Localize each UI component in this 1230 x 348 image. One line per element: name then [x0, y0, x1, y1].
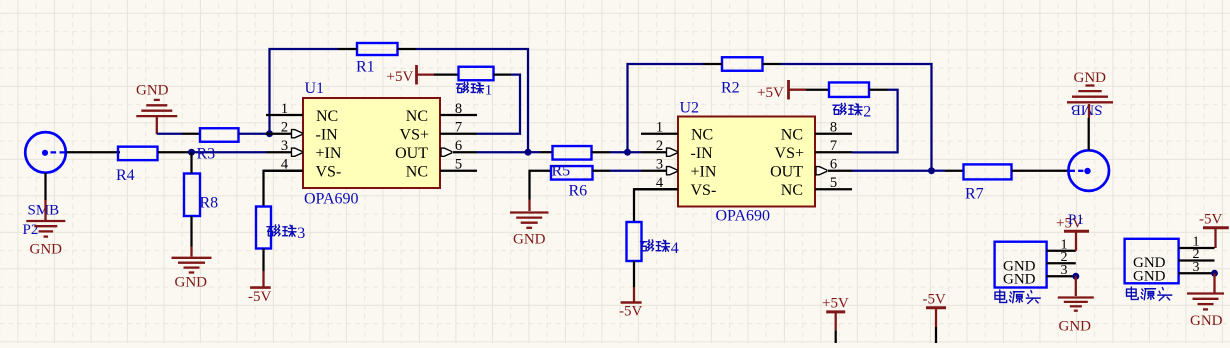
wire R8 to ground: [190, 216, 192, 247]
svg-text:VS+: VS+: [400, 127, 429, 144]
svg-text:OUT: OUT: [395, 145, 428, 162]
U1 pin 2 -IN: [266, 120, 338, 144]
U1 pin 4 VS-: [264, 157, 342, 181]
ferrite bead 磁珠2: [829, 82, 871, 120]
svg-text:+IN: +IN: [691, 164, 717, 181]
svg-text:GND: GND: [30, 242, 63, 258]
U2 pin 2 -IN: [656, 138, 713, 162]
wire feedback right leg to OUT node: [416, 49, 528, 152]
svg-text:2: 2: [281, 120, 288, 136]
wire P1 to ground: [1088, 118, 1090, 151]
svg-text:NC: NC: [406, 164, 428, 181]
svg-text:6: 6: [455, 138, 462, 154]
svg-text:R2: R2: [721, 80, 740, 97]
wire R1 leads: [338, 48, 357, 50]
wire node to U1 +IN: [192, 151, 267, 153]
wire feedback left leg: [270, 49, 339, 134]
wire R7 to P1: [1012, 170, 1069, 172]
wire bead3 to -5V: [262, 249, 264, 272]
wire R2 leads: [703, 63, 722, 65]
wire U2 VS- to bead4: [634, 189, 678, 222]
power port -5V at J2: [1199, 212, 1229, 249]
power port +5V at J1: [1056, 212, 1089, 251]
svg-text:+IN: +IN: [316, 145, 342, 162]
J1 pin 3: [1047, 263, 1076, 278]
U2 pin 4 VS-: [634, 175, 716, 199]
wire J2 pin3 to ground: [1213, 273, 1215, 293]
svg-text:-IN: -IN: [691, 145, 714, 162]
wire OUT node to R5: [528, 151, 540, 153]
connector 电源头 J2: [1125, 239, 1179, 301]
resistor R2: [721, 57, 763, 96]
svg-text:6: 6: [830, 157, 837, 173]
wire U1 OUT to node: [477, 151, 528, 153]
svg-text:U2: U2: [680, 99, 700, 116]
resistor R4: [116, 147, 158, 184]
U1 pin 7 VS+: [400, 120, 477, 144]
connector P2 SMB input: [23, 132, 66, 238]
svg-text:-5V: -5V: [619, 304, 642, 320]
svg-text:R6: R6: [569, 183, 588, 200]
node junction at U1 -IN: [266, 130, 273, 137]
U1 pin 3 +IN: [266, 138, 342, 162]
svg-text:8: 8: [455, 101, 462, 117]
svg-text:1: 1: [485, 83, 493, 99]
J1 pin 1: [1047, 237, 1076, 252]
svg-text:5: 5: [455, 157, 462, 173]
op-amp U1 OPA690: [303, 80, 440, 208]
power port +5V stage1: [387, 65, 435, 85]
resistor R8: [184, 174, 218, 217]
wire +5V to bead2: [806, 89, 829, 91]
svg-text:P1: P1: [1068, 212, 1084, 228]
resistor R3: [200, 128, 239, 142]
svg-text:GND: GND: [1190, 313, 1223, 329]
wire feedback2 left leg: [628, 64, 704, 152]
U2 pin 3 +IN: [656, 157, 717, 181]
ground GND below R8: [172, 258, 212, 291]
svg-text:VS-: VS-: [316, 164, 342, 181]
svg-text:1: 1: [656, 120, 663, 136]
wire J1 pin3 to ground: [1075, 276, 1077, 296]
svg-text:2: 2: [863, 104, 871, 121]
power port GND left of U1: [136, 83, 177, 135]
svg-text:7: 7: [830, 138, 837, 154]
wire bead4 to -5V: [633, 261, 635, 287]
wire feedback2 right leg: [781, 64, 932, 171]
svg-text:-5V: -5V: [923, 291, 946, 307]
resistor R7: [964, 164, 1012, 202]
wire U2 OUT to node: [852, 170, 932, 172]
U1 pin 1 NC: [266, 101, 338, 125]
U1 pin 6 OUT: [395, 138, 477, 162]
wire U1 VS- to bead3: [264, 171, 304, 207]
wire P2 to R4: [67, 151, 121, 153]
node U1 OUT feedback: [525, 149, 532, 156]
svg-text:3: 3: [297, 225, 305, 242]
J2 pin 2: [1179, 247, 1215, 262]
U1 pin 8 NC: [406, 101, 477, 125]
resistor R1: [356, 43, 398, 76]
svg-text:+5V: +5V: [387, 69, 414, 85]
wire node to R7: [932, 170, 946, 172]
svg-text:NC: NC: [781, 127, 803, 144]
ground GND above P1: [1067, 70, 1113, 102]
svg-text:NC: NC: [691, 127, 713, 144]
power port +5V stub bottom: [822, 295, 849, 343]
J1 pin 2: [1047, 250, 1076, 265]
svg-text:SMB: SMB: [1071, 101, 1103, 117]
wire R3 to U1 -IN: [239, 133, 267, 135]
svg-text:OPA690: OPA690: [716, 208, 771, 225]
power port +5V stage2: [757, 80, 806, 101]
svg-text:VS-: VS-: [691, 182, 717, 199]
svg-text:NC: NC: [781, 182, 803, 199]
wire node to R8: [190, 152, 192, 173]
U2 pin 5 NC: [781, 175, 852, 199]
svg-text:-5V: -5V: [1199, 212, 1222, 228]
svg-text:8: 8: [830, 120, 837, 136]
wire P2 to ground: [44, 173, 46, 200]
connector 电源头 J1: [995, 242, 1047, 304]
svg-text:R5: R5: [552, 163, 571, 180]
op-amp U2 OPA690: [678, 99, 815, 224]
svg-text:R7: R7: [965, 186, 984, 203]
U1 pin 5 NC: [406, 157, 477, 181]
wire +5V to bead1: [434, 73, 459, 75]
ground GND at R6: [510, 213, 549, 248]
svg-text:GND: GND: [1003, 272, 1036, 288]
svg-text:5: 5: [830, 175, 837, 191]
wire GND to R3: [157, 133, 182, 135]
wire bead1 to U1 VS+: [494, 73, 512, 75]
svg-text:NC: NC: [406, 108, 428, 125]
node U2 OUT: [928, 167, 935, 174]
svg-text:+5V: +5V: [757, 85, 784, 101]
node junction at R8 top: [188, 149, 195, 156]
ferrite bead 磁珠4: [627, 222, 679, 261]
node J1 pin3: [1072, 273, 1079, 280]
svg-text:2: 2: [656, 138, 663, 154]
U2 pin 7 VS+: [775, 138, 852, 162]
wire bead2 to U2 VS+: [869, 89, 888, 91]
svg-text:1: 1: [281, 101, 288, 117]
svg-text:7: 7: [455, 120, 462, 136]
wire R6 to ground: [530, 171, 552, 200]
power port -5V stage2: [619, 303, 642, 320]
ferrite bead 磁珠3: [256, 207, 305, 249]
ground GND at P2: [26, 221, 65, 258]
U2 pin 1 NC: [641, 120, 713, 144]
svg-text:3: 3: [656, 157, 663, 173]
wire R5 to U2 -IN node: [592, 151, 611, 153]
U2 pin 6 OUT: [770, 157, 852, 181]
connector P1 SMB output: [1068, 101, 1109, 191]
svg-text:P2: P2: [23, 222, 39, 238]
svg-text:GND: GND: [513, 232, 546, 248]
svg-text:R8: R8: [200, 195, 219, 212]
svg-text:3: 3: [1061, 263, 1068, 278]
svg-text:+5V: +5V: [822, 295, 849, 311]
svg-text:R1: R1: [356, 59, 375, 76]
node U2 -IN: [624, 149, 631, 156]
svg-text:R4: R4: [116, 167, 135, 184]
wire R4 to node R3: [158, 151, 192, 153]
resistor R5: [553, 146, 592, 160]
ground GND below J2: [1187, 294, 1224, 330]
svg-text:R3: R3: [197, 146, 216, 163]
svg-text:GND: GND: [1074, 70, 1107, 86]
svg-text:GND: GND: [175, 275, 208, 291]
svg-text:OUT: OUT: [770, 164, 803, 181]
J2 pin 1: [1179, 235, 1215, 250]
svg-text:GND: GND: [136, 83, 169, 99]
node J2 pin3: [1211, 270, 1218, 277]
J2 pin 3: [1179, 260, 1215, 275]
power port -5V stage1: [248, 288, 271, 305]
wire R6 to U2 +IN: [593, 170, 611, 172]
power port -5V stub bottom: [923, 291, 947, 343]
svg-text:-IN: -IN: [316, 127, 339, 144]
svg-text:NC: NC: [316, 108, 338, 125]
svg-text:-5V: -5V: [248, 289, 271, 305]
svg-text:GND: GND: [1133, 269, 1166, 285]
ferrite bead 磁珠1: [457, 67, 494, 99]
svg-text:3: 3: [1193, 260, 1200, 275]
svg-text:SMB: SMB: [28, 203, 60, 219]
svg-text:U1: U1: [305, 80, 325, 97]
ground GND below J1: [1058, 298, 1094, 335]
svg-text:3: 3: [281, 138, 288, 154]
svg-text:OPA690: OPA690: [304, 191, 359, 208]
resistor R6: [551, 166, 593, 199]
wire node to U2 pin2: [641, 151, 667, 153]
svg-text:4: 4: [671, 240, 679, 257]
U2 pin 8 NC: [781, 120, 852, 144]
svg-text:VS+: VS+: [775, 145, 804, 162]
svg-text:GND: GND: [1059, 319, 1092, 335]
